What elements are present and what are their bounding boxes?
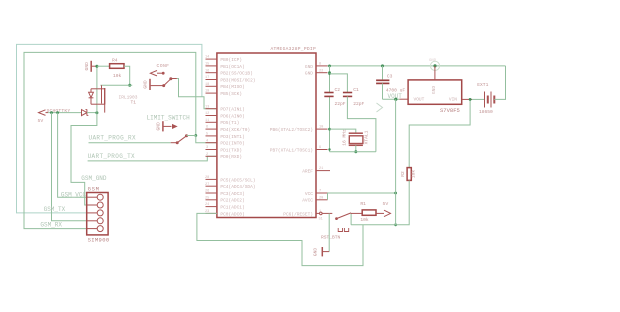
svg-text:GSM_RX: GSM_RX [40, 222, 62, 229]
svg-text:PD2(INT0): PD2(INT0) [220, 141, 244, 147]
svg-text:GND: GND [155, 122, 161, 131]
capacitor C3 4700uF [382, 66, 384, 80]
crystal Q1 16MHz [349, 133, 363, 145]
svg-text:GSM: GSM [88, 186, 100, 193]
svg-text:PB4(MISO): PB4(MISO) [220, 84, 244, 90]
wire net GSM_VCC [58, 113, 87, 198]
wire R2 bottom to reset rail [351, 180, 409, 224]
svg-text:CONF: CONF [157, 63, 170, 69]
svg-text:S7V8F5: S7V8F5 [440, 107, 460, 114]
svg-text:PC1(ADC1): PC1(ADC1) [220, 205, 244, 211]
ground GND (reset) rotated [322, 247, 329, 256]
svg-text:GND: GND [305, 71, 313, 77]
svg-text:PB6(XTAL2/TOSC2): PB6(XTAL2/TOSC2) [270, 127, 313, 133]
svg-text:UART_PROG_TX: UART_PROG_TX [88, 153, 135, 160]
junction VOUT net to reset rail [394, 223, 397, 226]
svg-text:18650: 18650 [479, 109, 493, 115]
svg-text:3: 3 [206, 146, 208, 150]
wire net UART_PROG_TX [88, 156, 217, 161]
wire C1 bottom loop [347, 96, 376, 151]
ground GND (limit switch) rotated [163, 121, 177, 131]
label chevron near C3 [377, 103, 383, 112]
supply arrow 5V (reset) [384, 210, 391, 216]
svg-text:22pF: 22pF [335, 101, 346, 107]
svg-text:26: 26 [205, 190, 209, 194]
regulator GND pin stub to rail [434, 66, 436, 80]
svg-text:PC3(ADC3): PC3(ADC3) [220, 191, 244, 197]
pin numbers group1 [205, 56, 209, 94]
svg-text:PC5(ADC5/SCL): PC5(ADC5/SCL) [220, 177, 255, 183]
svg-text:22: 22 [319, 69, 323, 73]
svg-text:10k: 10k [410, 170, 416, 179]
svg-text:PD0(RXD): PD0(RXD) [220, 154, 242, 160]
svg-text:UART_PROG_RX: UART_PROG_RX [89, 135, 136, 142]
pin numbers group2 [205, 105, 209, 157]
wire VIN branch to R2 [409, 99, 470, 167]
svg-text:PD7(AIN1): PD7(AIN1) [220, 107, 244, 113]
resistor R4 [110, 64, 124, 69]
junction R4 left node [95, 65, 98, 68]
junction XTAL1 node [328, 148, 330, 150]
pin stubs left group2 PD7-PD0 [206, 109, 217, 157]
svg-text:AREF: AREF [302, 169, 313, 175]
svg-text:PB1(OC1A): PB1(OC1A) [220, 64, 244, 70]
regulator VIN pin stub [462, 98, 472, 100]
svg-text:PD6(AIN0): PD6(AIN0) [220, 113, 244, 119]
wire battery to GND rail [494, 66, 505, 100]
wire mosfet source stub down [104, 105, 106, 113]
svg-text:10k: 10k [113, 73, 122, 79]
IC U1 ATMEGA328P-PDIP box [217, 53, 316, 218]
svg-text:AVCC: AVCC [302, 198, 313, 204]
pin stubs right side [316, 66, 330, 214]
wire R4 left [97, 65, 110, 67]
svg-text:9: 9 [319, 146, 321, 150]
diode D1 schottky [82, 109, 89, 115]
junction RX/loop node [194, 134, 197, 137]
svg-text:16 MHz: 16 MHz [341, 129, 347, 146]
regulator U2 VOUT pin stub [400, 98, 409, 100]
svg-text:PB7(XTAL1/TOSC1): PB7(XTAL1/TOSC1) [270, 147, 313, 153]
svg-text:ATMEGA328P_PDIP: ATMEGA328P_PDIP [270, 46, 316, 52]
junction cap2 jog [328, 73, 330, 75]
wire GND rail top [328, 65, 506, 67]
wire net 5V after diode [87, 112, 97, 114]
junction 5V/mosfet node [95, 111, 98, 114]
wire lever to R1 [351, 212, 362, 214]
svg-text:2: 2 [206, 153, 208, 157]
wire gate line [100, 84, 132, 86]
svg-text:GSM_VCC: GSM_VCC [61, 192, 87, 199]
svg-text:22pF: 22pF [353, 101, 364, 107]
svg-text:R1: R1 [360, 201, 366, 207]
ground GND (near R4) rotated [91, 61, 97, 72]
svg-text:24: 24 [205, 203, 209, 207]
connector pins [87, 194, 104, 231]
pin names right side [270, 64, 314, 218]
switch S_LIMIT pin stub [171, 142, 177, 144]
wire PC0 staircase to reset rail [197, 213, 363, 265]
wire net GSM_TX top/left loop [17, 44, 202, 213]
svg-text:5: 5 [206, 133, 208, 137]
junction rail/C3 [381, 64, 384, 67]
capacitor C1 22pF [343, 93, 352, 97]
svg-text:13: 13 [205, 105, 209, 109]
supply arrow 5V [39, 110, 49, 116]
wire VIN to battery [472, 98, 485, 100]
svg-text:27: 27 [205, 183, 209, 187]
svg-text:PB2(SS/OC1B): PB2(SS/OC1B) [220, 71, 252, 77]
svg-text:GND: GND [84, 62, 90, 71]
wire net GSM_RX top/left loop [24, 52, 196, 228]
switch S1 RST_BTN [320, 212, 352, 231]
svg-text:PD4(XCK/T0): PD4(XCK/T0) [220, 127, 250, 133]
svg-text:C1: C1 [353, 87, 359, 93]
svg-text:PB5(SCK): PB5(SCK) [220, 91, 242, 97]
junction VIN node [469, 98, 472, 101]
wire jog to C1 [330, 74, 348, 93]
svg-text:12: 12 [205, 112, 209, 116]
svg-text:PC4(ADC4/SDA): PC4(ADC4/SDA) [220, 184, 255, 190]
wire crystal GND loop bottom [330, 151, 376, 153]
supply arrow CONF [150, 71, 164, 76]
svg-text:GSM_GND: GSM_GND [81, 175, 107, 182]
svg-text:25: 25 [205, 196, 209, 200]
svg-text:LIMIT_SWITCH: LIMIT_SWITCH [147, 115, 191, 122]
wire C3 bottom to VOUT [382, 83, 384, 99]
svg-text:GSM_TX: GSM_TX [44, 206, 66, 213]
svg-text:PB0(ICP): PB0(ICP) [220, 57, 242, 63]
resistor R1 [362, 210, 376, 215]
wire R1 to 5V arrow [376, 212, 384, 214]
svg-text:PC2(ADC2): PC2(ADC2) [220, 198, 244, 204]
svg-text:16: 16 [205, 69, 209, 73]
svg-text:SIM900: SIM900 [88, 237, 110, 244]
junction on 5V line at x=51.5 [50, 111, 53, 114]
wire switch to PD2 [187, 136, 217, 143]
svg-text:PB3(MOSI/OC2): PB3(MOSI/OC2) [220, 77, 255, 83]
svg-text:6: 6 [206, 126, 208, 130]
svg-text:VIN: VIN [449, 97, 457, 103]
pin numbers group3 [205, 176, 209, 214]
wire mosfet source to R4 node vertical [96, 66, 98, 113]
wire R4 right to gate node [124, 66, 130, 85]
wire lever node down [350, 213, 352, 224]
junction gate node [128, 84, 131, 87]
wire to GSM pin4 [52, 113, 87, 221]
svg-text:19: 19 [205, 90, 209, 94]
junction crystal top node [328, 128, 331, 131]
svg-text:EXT1: EXT1 [477, 82, 488, 88]
junction VOUT/R2 [394, 98, 397, 101]
svg-text:10: 10 [319, 126, 323, 130]
svg-text:XTAL1: XTAL1 [364, 130, 370, 144]
svg-text:28: 28 [205, 176, 209, 180]
switch S_LIMIT contacts and lever [176, 135, 187, 144]
wire XTAL2 to crystal [330, 129, 356, 133]
wire net UART_PROG_RX [89, 142, 171, 144]
svg-text:4: 4 [206, 139, 208, 143]
wire crystal bottom [355, 145, 357, 152]
svg-text:PD5(T1): PD5(T1) [220, 120, 239, 126]
svg-text:T1: T1 [131, 100, 137, 106]
pin names group3 [220, 177, 255, 217]
svg-text:VCC: VCC [305, 191, 313, 197]
svg-text:18: 18 [205, 83, 209, 87]
svg-text:VOUT: VOUT [414, 97, 425, 103]
svg-text:5V: 5V [38, 118, 44, 124]
pin stubs left group1 PB0-PB5 [206, 59, 217, 93]
regulator U2 S7V8F5 [408, 80, 462, 104]
node regulator GND on rail [430, 61, 439, 70]
resistor R2 vertical [407, 168, 411, 181]
svg-text:14: 14 [205, 56, 209, 60]
svg-text:PD3(INT1): PD3(INT1) [220, 134, 244, 140]
svg-text:21: 21 [319, 167, 323, 171]
transistor T1 IRL1903 mosfet [89, 85, 105, 104]
svg-text:PC0(ADC0): PC0(ADC0) [220, 211, 244, 217]
junction crystal bottom [354, 150, 357, 153]
svg-text:GND: GND [143, 80, 149, 89]
svg-text:11: 11 [205, 119, 209, 123]
wire VCC/AVCC to 5V net [327, 193, 329, 200]
svg-text:C3: C3 [387, 74, 393, 80]
svg-text:S1: S1 [319, 218, 323, 222]
svg-text:7: 7 [319, 190, 321, 194]
wire CONF switch to PD7 [177, 79, 217, 109]
svg-text:20: 20 [319, 196, 323, 200]
wire net 5V horizontal [48, 112, 81, 114]
junction GND2 stub [328, 71, 331, 74]
ground GND (CONF switch) rotated [150, 79, 163, 90]
wire 5V node down-left to GSM_GND [71, 113, 97, 205]
svg-text:R4: R4 [112, 58, 118, 64]
pin stubs left group3 PC5-PC0 [206, 179, 217, 213]
svg-text:8: 8 [319, 63, 321, 67]
pin names group2 [220, 107, 250, 161]
pin numbers right side [319, 63, 323, 215]
junction rail/caps vertical [328, 65, 331, 68]
pin names group1 [220, 57, 255, 97]
svg-text:R2: R2 [400, 171, 406, 177]
junction on 5V line at x=57.6 [56, 111, 59, 114]
switch S_CONF contacts and lever [163, 78, 177, 87]
svg-text:GND: GND [305, 64, 313, 70]
svg-text:17: 17 [205, 76, 209, 80]
svg-text:PD1(TXD): PD1(TXD) [220, 147, 242, 153]
svg-text:15: 15 [205, 63, 209, 67]
svg-text:RST_BTN: RST_BTN [321, 235, 341, 241]
svg-text:10k: 10k [360, 217, 369, 223]
wire net VOUT [383, 98, 400, 100]
junction VCC net [394, 192, 397, 195]
svg-text:PC6(/RESET): PC6(/RESET) [283, 211, 313, 217]
wire GND vertical to caps/crystal [329, 66, 331, 93]
svg-text:GND: GND [431, 86, 437, 94]
capacitor C2 22pF [324, 93, 333, 97]
wire VOUT vertical to reset rail [395, 99, 397, 225]
svg-text:5V: 5V [383, 201, 389, 207]
wire reset switch to GND [328, 213, 330, 251]
svg-text:GND: GND [313, 248, 319, 257]
svg-text:C2: C2 [335, 87, 341, 93]
